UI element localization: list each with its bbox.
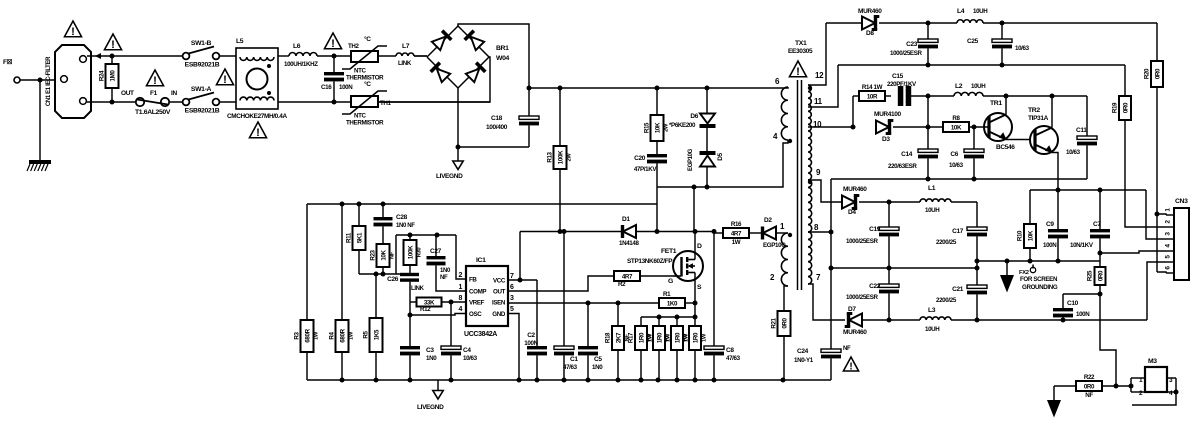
- svg-text:THERMISTOR: THERMISTOR: [346, 120, 384, 127]
- svg-text:1: 1: [458, 284, 462, 291]
- svg-text:C23: C23: [906, 41, 918, 48]
- svg-text:R15: R15: [644, 122, 651, 133]
- svg-text:4R7: 4R7: [731, 230, 742, 237]
- svg-text:C7: C7: [1093, 221, 1101, 228]
- svg-text:C19: C19: [869, 226, 881, 233]
- svg-text:100N: 100N: [339, 84, 353, 91]
- svg-text:4: 4: [458, 306, 462, 313]
- svg-text:R11: R11: [346, 232, 353, 243]
- svg-text:R5: R5: [363, 330, 370, 338]
- svg-text:C4: C4: [463, 347, 471, 354]
- svg-text:0R0: 0R0: [1084, 383, 1095, 390]
- svg-text:R9: R9: [646, 333, 653, 341]
- svg-text:*P6KE200: *P6KE200: [669, 122, 696, 129]
- svg-text:M3: M3: [1148, 358, 1157, 365]
- svg-text:R6: R6: [682, 333, 689, 341]
- svg-text:TR1: TR1: [990, 100, 1002, 107]
- svg-text:D2: D2: [764, 217, 772, 224]
- svg-text:1W: 1W: [702, 333, 708, 342]
- svg-text:2200/25: 2200/25: [936, 297, 957, 304]
- svg-text:0R0: 0R0: [1122, 102, 1129, 113]
- svg-text:C14: C14: [901, 151, 913, 158]
- svg-text:47P/1KV: 47P/1KV: [634, 166, 658, 173]
- svg-text:12: 12: [815, 71, 824, 80]
- svg-text:G: G: [668, 278, 673, 285]
- svg-text:C11: C11: [1076, 127, 1087, 134]
- svg-text:6: 6: [510, 284, 514, 291]
- svg-text:R22: R22: [1084, 374, 1095, 381]
- svg-text:CN3: CN3: [1175, 198, 1188, 205]
- svg-text:ESB92021B: ESB92021B: [185, 108, 220, 115]
- svg-text:C8: C8: [726, 347, 734, 354]
- svg-text:FB: FB: [469, 276, 477, 283]
- svg-text:1000/25ESR: 1000/25ESR: [890, 50, 922, 57]
- svg-text:10K: 10K: [654, 122, 661, 133]
- svg-text:7: 7: [510, 273, 514, 280]
- svg-text:NF: NF: [440, 275, 448, 281]
- svg-text:TIP31A: TIP31A: [1028, 115, 1049, 122]
- svg-text:R4: R4: [329, 331, 336, 339]
- svg-text:100K: 100K: [407, 245, 414, 259]
- svg-text:10UH: 10UH: [971, 83, 986, 90]
- svg-text:C27: C27: [430, 248, 442, 255]
- svg-text:L1: L1: [928, 185, 936, 192]
- svg-text:C2: C2: [527, 332, 535, 339]
- svg-text:TH1: TH1: [380, 100, 392, 107]
- svg-text:100K: 100K: [557, 150, 564, 164]
- svg-text:1N0: 1N0: [426, 355, 437, 362]
- svg-text:L7: L7: [402, 43, 410, 50]
- svg-text:TH2: TH2: [348, 43, 360, 50]
- svg-text:NF: NF: [843, 346, 851, 352]
- svg-text:D5: D5: [717, 152, 724, 160]
- svg-text:47/63: 47/63: [563, 364, 578, 371]
- svg-text:0R0: 0R0: [781, 317, 788, 328]
- svg-text:10/63: 10/63: [1066, 149, 1081, 156]
- svg-text:1N0: 1N0: [592, 364, 603, 371]
- svg-text:IN: IN: [171, 90, 177, 97]
- svg-text:R30: R30: [417, 248, 423, 258]
- svg-text:100/400: 100/400: [486, 124, 508, 131]
- svg-text:L3: L3: [928, 307, 936, 314]
- svg-text:UCC3842A: UCC3842A: [464, 331, 497, 338]
- svg-text:10R: 10R: [867, 93, 878, 100]
- svg-text:R12: R12: [420, 306, 431, 313]
- svg-text:°C: °C: [364, 80, 371, 88]
- svg-text:R1: R1: [663, 291, 671, 298]
- svg-text:100N: 100N: [524, 340, 538, 347]
- svg-text:680R: 680R: [304, 328, 311, 342]
- svg-text:ISEN: ISEN: [492, 299, 506, 306]
- svg-text:R24: R24: [99, 70, 106, 81]
- svg-text:MUR460: MUR460: [843, 186, 867, 193]
- svg-text:VREF: VREF: [469, 299, 485, 306]
- svg-text:!: !: [153, 75, 157, 87]
- svg-text:R8: R8: [952, 115, 960, 122]
- svg-text:D7: D7: [848, 306, 856, 313]
- svg-text:FET1: FET1: [661, 248, 677, 255]
- svg-text:1R0: 1R0: [656, 332, 663, 343]
- svg-text:1M0: 1M0: [109, 70, 116, 82]
- svg-text:R13: R13: [547, 151, 554, 162]
- svg-text:3: 3: [510, 295, 514, 302]
- svg-text:C25: C25: [967, 38, 979, 45]
- svg-text:ESB92021B: ESB92021B: [185, 62, 220, 69]
- svg-text:EE30305: EE30305: [788, 48, 813, 55]
- svg-text:220PF/1KV: 220PF/1KV: [887, 81, 917, 88]
- svg-text:R10: R10: [1017, 230, 1024, 241]
- svg-text:FOR SCREEN: FOR SCREEN: [1020, 276, 1058, 283]
- svg-text:NTC: NTC: [354, 68, 367, 75]
- svg-text:LINK: LINK: [398, 60, 412, 67]
- svg-text:L6: L6: [293, 43, 301, 50]
- svg-text:!: !: [223, 74, 227, 86]
- svg-text:C10: C10: [1067, 300, 1079, 307]
- svg-text:MUR460: MUR460: [858, 8, 882, 15]
- svg-text:C3: C3: [426, 347, 434, 354]
- svg-text:1000/25ESR: 1000/25ESR: [846, 294, 878, 301]
- svg-text:0R0: 0R0: [1154, 68, 1161, 79]
- svg-text:2K7: 2K7: [615, 332, 622, 343]
- svg-text:10/63: 10/63: [463, 355, 478, 362]
- svg-text:4R7: 4R7: [622, 273, 633, 280]
- svg-text:GROUNDING: GROUNDING: [1022, 284, 1058, 291]
- svg-text:2W: 2W: [567, 153, 573, 162]
- svg-text:!: !: [111, 39, 115, 51]
- svg-text:D3: D3: [882, 136, 890, 143]
- svg-text:LIVEGND: LIVEGND: [417, 404, 444, 411]
- svg-text:C24: C24: [797, 348, 809, 355]
- svg-text:C1: C1: [570, 356, 578, 363]
- svg-text:CMCHOKE27MH/0.4A: CMCHOKE27MH/0.4A: [227, 113, 287, 120]
- svg-text:COMP: COMP: [469, 288, 486, 295]
- svg-text:NF: NF: [390, 251, 396, 259]
- svg-text:5: 5: [510, 306, 514, 313]
- svg-text:D6: D6: [690, 113, 698, 120]
- svg-text:NTC: NTC: [354, 113, 367, 120]
- svg-text:F1: F1: [150, 90, 158, 97]
- svg-text:C18: C18: [491, 115, 503, 122]
- svg-text:OSC: OSC: [469, 311, 482, 318]
- svg-text:10/63: 10/63: [1015, 45, 1030, 52]
- svg-text:C20: C20: [634, 155, 646, 162]
- svg-text:OUT: OUT: [493, 288, 506, 295]
- svg-text:100UH/1KHZ: 100UH/1KHZ: [284, 61, 318, 68]
- svg-text:R25: R25: [1087, 270, 1094, 281]
- svg-text:R23: R23: [370, 249, 377, 260]
- svg-text:°C: °C: [364, 35, 371, 43]
- svg-text:C28: C28: [396, 214, 408, 221]
- svg-text:8: 8: [458, 295, 462, 302]
- svg-text:1N4148: 1N4148: [619, 240, 639, 247]
- svg-text:680R: 680R: [339, 328, 346, 342]
- svg-text:!: !: [256, 127, 260, 139]
- svg-text:L4: L4: [957, 8, 965, 15]
- svg-text:SW1-A: SW1-A: [191, 86, 212, 93]
- svg-text:T1.6AL250V: T1.6AL250V: [135, 109, 171, 116]
- svg-text:10K: 10K: [951, 124, 962, 131]
- svg-text:R21: R21: [771, 317, 778, 328]
- svg-text:C15: C15: [892, 73, 904, 80]
- svg-text:100N: 100N: [1043, 242, 1057, 249]
- svg-text:R19: R19: [1112, 102, 1119, 113]
- svg-text:L5: L5: [236, 38, 244, 45]
- svg-text:C6: C6: [950, 151, 958, 158]
- svg-text:NF: NF: [1085, 392, 1093, 399]
- svg-text:CN1 E1 IEC-FILTER: CN1 E1 IEC-FILTER: [46, 56, 52, 106]
- svg-text:R14 1W: R14 1W: [862, 84, 883, 91]
- svg-text:R17: R17: [628, 332, 635, 343]
- svg-text:C26: C26: [387, 276, 399, 283]
- svg-text:10UH: 10UH: [925, 326, 940, 333]
- svg-text:C9: C9: [1046, 221, 1054, 228]
- svg-text:C22: C22: [869, 283, 881, 290]
- svg-text:!: !: [331, 38, 335, 50]
- svg-text:1K5: 1K5: [373, 329, 380, 340]
- svg-text:1W: 1W: [314, 331, 320, 340]
- svg-text:LIVEGND: LIVEGND: [436, 173, 463, 180]
- svg-text:1W: 1W: [349, 331, 355, 340]
- svg-text:D4: D4: [848, 209, 856, 216]
- svg-text:C17: C17: [952, 228, 964, 235]
- svg-text:R2: R2: [618, 281, 626, 288]
- svg-text:10K: 10K: [1027, 230, 1034, 241]
- svg-text:100N: 100N: [1076, 311, 1090, 318]
- svg-text:D1: D1: [622, 216, 630, 223]
- svg-text:1N0 NF: 1N0 NF: [396, 223, 415, 229]
- svg-text:!: !: [796, 66, 800, 78]
- svg-text:1000/25ESR: 1000/25ESR: [846, 238, 878, 245]
- svg-text:TX1: TX1: [795, 40, 807, 47]
- svg-text:R3: R3: [294, 331, 301, 339]
- svg-text:10K: 10K: [380, 249, 387, 260]
- svg-text:IC1: IC1: [476, 257, 486, 264]
- svg-text:GND: GND: [492, 311, 506, 318]
- svg-text:TR2: TR2: [1028, 107, 1040, 114]
- svg-text:1W: 1W: [732, 239, 741, 246]
- svg-text:10UH: 10UH: [925, 207, 940, 214]
- svg-text:R18: R18: [605, 332, 612, 343]
- svg-text:2: 2: [458, 272, 462, 279]
- svg-text:C16: C16: [321, 84, 332, 91]
- svg-text:1R0: 1R0: [674, 332, 681, 343]
- svg-text:1K0: 1K0: [667, 300, 678, 307]
- svg-text:R7: R7: [664, 333, 671, 341]
- svg-text:R20: R20: [1144, 68, 1151, 79]
- svg-text:11: 11: [814, 97, 823, 106]
- svg-text:EGP10G: EGP10G: [688, 148, 694, 171]
- svg-text:L2: L2: [955, 83, 963, 90]
- svg-text:0R0: 0R0: [1097, 270, 1104, 281]
- svg-text:D8: D8: [866, 30, 874, 37]
- svg-text:!: !: [849, 361, 852, 372]
- svg-text:10UH: 10UH: [973, 8, 988, 15]
- svg-text:F☒: F☒: [3, 58, 13, 66]
- svg-text:SW1-B: SW1-B: [191, 40, 212, 47]
- svg-text:1N0-Y1: 1N0-Y1: [794, 357, 814, 364]
- svg-text:MUR460: MUR460: [843, 329, 867, 336]
- svg-text:STP13NK60Z/FP: STP13NK60Z/FP: [627, 258, 673, 265]
- svg-text:VCC: VCC: [493, 277, 506, 284]
- svg-text:BR1: BR1: [496, 45, 509, 52]
- svg-text:47/63: 47/63: [726, 355, 741, 362]
- svg-text:C5: C5: [594, 356, 602, 363]
- svg-text:OUT: OUT: [121, 90, 134, 97]
- svg-text:C21: C21: [952, 286, 964, 293]
- svg-text:1N0: 1N0: [440, 268, 451, 274]
- svg-text:10N/1KV: 10N/1KV: [1070, 242, 1094, 249]
- svg-text:1R0: 1R0: [692, 332, 699, 343]
- svg-text:!: !: [71, 26, 75, 38]
- svg-text:2200/25: 2200/25: [936, 239, 957, 246]
- svg-text:MUR4100: MUR4100: [874, 111, 902, 118]
- svg-text:5K1: 5K1: [356, 232, 363, 243]
- svg-text:10/63: 10/63: [949, 162, 964, 169]
- svg-text:R16: R16: [731, 221, 742, 228]
- svg-text:1R0: 1R0: [638, 332, 645, 343]
- svg-text:D: D: [697, 243, 702, 250]
- svg-text:LINK: LINK: [411, 286, 425, 292]
- svg-text:220/63ESR: 220/63ESR: [888, 163, 917, 170]
- svg-text:BC546: BC546: [996, 144, 1015, 151]
- svg-text:W04: W04: [496, 55, 509, 62]
